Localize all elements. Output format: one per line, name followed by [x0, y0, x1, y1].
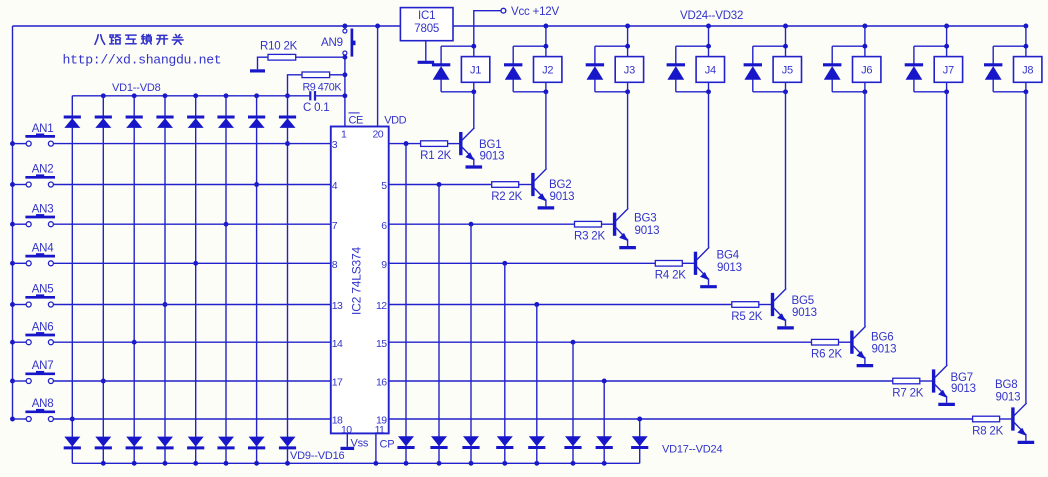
wire row 4 to IC2 pin	[53, 262, 330, 264]
svg-text:R3 2K: R3 2K	[574, 231, 605, 243]
svg-text:J8: J8	[1022, 65, 1033, 77]
wire J2 diode bracket top	[513, 45, 546, 47]
node AN7 row to column 2 junction	[101, 379, 106, 384]
node matrix column 8 bottom junction	[285, 461, 290, 466]
wire row 3 to IC2 pin	[53, 223, 330, 225]
octal latch IC2 74LS374	[331, 127, 389, 434]
diode VD6	[217, 116, 234, 119]
node matrix column 7 bottom junction	[254, 461, 259, 466]
svg-text:7805: 7805	[414, 23, 439, 35]
node AN1 row to column 8 junction	[285, 141, 290, 146]
wire J5 column lower	[785, 82, 787, 92]
transistor BG5 9013	[771, 293, 774, 316]
node J5 bus junction	[783, 24, 788, 29]
node J5 bracket top	[783, 44, 788, 49]
node J6 bracket top	[862, 44, 867, 49]
wire R9 left leg	[288, 75, 303, 96]
svg-text:AN4: AN4	[32, 243, 55, 255]
ground BG6 emitter	[857, 364, 874, 367]
wire VD1-VD8 cathode bus	[72, 95, 287, 97]
wire IC2 output row 3	[389, 223, 575, 225]
title text 八路互锁开关	[95, 34, 183, 44]
diode VD23	[596, 436, 612, 446]
wire drop column 1	[405, 144, 407, 464]
pushbutton AN1	[26, 141, 31, 146]
diode VD32	[984, 63, 1002, 66]
wire Vss stub	[346, 433, 348, 446]
transistor BG2 9013	[531, 173, 534, 196]
wire J4 diode bracket top	[676, 45, 709, 47]
resistor R2 2K	[492, 182, 519, 188]
svg-text:IC2 74LS374: IC2 74LS374	[349, 247, 363, 315]
wire J7 column lower	[946, 82, 948, 92]
svg-text:R1 2K: R1 2K	[420, 150, 451, 162]
pushbutton AN5	[26, 302, 31, 307]
svg-text:BG8: BG8	[995, 379, 1017, 391]
svg-text:http://xd.shangdu.net: http://xd.shangdu.net	[63, 53, 222, 68]
svg-text:13: 13	[332, 300, 343, 312]
wire R4 to base	[682, 262, 695, 264]
node drop column 8 junction	[637, 417, 642, 422]
wire J4 column upper	[708, 26, 710, 57]
svg-text:17: 17	[332, 377, 343, 389]
svg-text:J3: J3	[624, 65, 635, 77]
wire VD27 cathode lead	[594, 80, 596, 92]
pushbutton AN7	[26, 379, 31, 384]
wire collector column J8	[1025, 92, 1027, 403]
wire J2 column lower	[545, 82, 547, 92]
svg-text:9013: 9013	[996, 392, 1021, 404]
terminal Vcc +12V	[501, 8, 506, 13]
node VD22 bottom junction	[571, 461, 576, 466]
node J3 bracket top	[625, 44, 630, 49]
node J6 bracket bottom	[862, 89, 867, 94]
pushbutton AN8	[26, 417, 31, 422]
svg-text:R7 2K: R7 2K	[892, 387, 923, 399]
diode VD1	[64, 116, 81, 119]
wire row 8 to IC2 pin	[53, 418, 330, 420]
diode VD13	[188, 437, 204, 447]
resistor R9 470K	[302, 72, 330, 78]
resistor R3 2K	[575, 221, 602, 227]
wire bottom ground bus	[72, 462, 639, 464]
transistor BG3 9013	[613, 213, 616, 236]
relay J6	[853, 57, 881, 83]
wire R1 to base	[448, 143, 461, 145]
node J7 bus junction	[944, 24, 949, 29]
svg-text:BG6: BG6	[871, 331, 893, 343]
wire IC2 output row 6	[389, 341, 812, 343]
transistor BG6 9013	[850, 331, 853, 354]
ground BG8 emitter	[1018, 441, 1035, 444]
wire VDD pin20 line	[377, 26, 379, 127]
svg-text:CP: CP	[380, 438, 395, 450]
svg-text:Vss: Vss	[351, 437, 369, 449]
wire row 2 to IC2 pin	[53, 184, 330, 186]
node matrix column 3 bottom junction	[132, 461, 137, 466]
capacitor C 0.1	[309, 91, 311, 100]
node J3 bracket bottom	[625, 89, 630, 94]
wire J4 column lower	[708, 82, 710, 92]
ground BG4 emitter	[700, 285, 717, 288]
diode VD31	[905, 63, 923, 66]
wire J1 column lower	[473, 82, 475, 92]
diode VD17	[398, 436, 414, 446]
wire J6 column lower	[864, 82, 866, 92]
node J2 bus junction	[543, 24, 548, 29]
wire VD29 cathode lead	[752, 80, 754, 92]
diode VD24	[632, 436, 648, 446]
node VD18 bottom junction	[437, 461, 442, 466]
resistor R6 2K	[812, 339, 839, 345]
svg-text:9013: 9013	[951, 383, 976, 395]
wire drop column 2	[438, 185, 440, 464]
svg-text:AN3: AN3	[32, 203, 54, 215]
wire J6 diode bracket bottom	[832, 91, 865, 93]
wire collector column J1	[473, 92, 475, 128]
wire VD26 anode lead	[512, 46, 514, 65]
wire VD32 anode lead	[992, 46, 994, 65]
svg-text:BG4: BG4	[717, 250, 740, 262]
relay J4	[696, 57, 724, 83]
transistor BG8 9013	[1011, 407, 1014, 430]
diode VD16	[280, 437, 296, 447]
wire drop column 8	[639, 419, 641, 463]
wire collector column J7	[946, 92, 948, 365]
node drop column 6 junction	[571, 340, 576, 345]
wire C left	[288, 95, 311, 97]
resistor R4 2K	[655, 261, 682, 267]
voltage regulator IC1 7805	[400, 8, 453, 41]
relay J3	[615, 57, 643, 83]
svg-text:R8 2K: R8 2K	[972, 425, 1003, 437]
wire R7 to base	[920, 380, 934, 382]
wire VD29 anode lead	[752, 46, 754, 65]
resistor R7 2K	[893, 378, 920, 384]
wire IC2 output row 8	[389, 418, 973, 420]
node J5 bracket bottom	[783, 89, 788, 94]
wire VD30 anode lead	[831, 46, 833, 65]
wire J2 column upper	[545, 26, 547, 57]
ground Vss	[341, 447, 355, 450]
node J8 bracket bottom	[1023, 89, 1028, 94]
node J2 bracket top	[543, 44, 548, 49]
node VD20 bottom junction	[502, 461, 507, 466]
wire J2 diode bracket bottom	[513, 91, 546, 93]
wire matrix column 1	[71, 96, 73, 464]
diode VD7	[248, 116, 265, 119]
relay J5	[773, 57, 801, 83]
node left bus row 3	[10, 222, 15, 227]
wire IC2 output row 7	[389, 380, 893, 382]
diode VD15	[249, 437, 265, 447]
svg-text:1: 1	[341, 129, 347, 141]
node left bus row 1	[10, 141, 15, 146]
wire VD32 cathode lead	[992, 80, 994, 92]
transistor BG4 9013	[694, 252, 697, 275]
node drop column 1 junction	[404, 141, 409, 146]
wire matrix column 3	[133, 96, 135, 464]
svg-text:R5 2K: R5 2K	[731, 311, 762, 323]
wire J3 column lower	[627, 82, 629, 92]
svg-text:R2 2K: R2 2K	[491, 191, 522, 203]
svg-text:8: 8	[332, 259, 338, 271]
wire VD25 cathode lead	[440, 80, 442, 92]
wire VD31 anode lead	[913, 46, 915, 65]
wire VD28 anode lead	[675, 46, 677, 65]
wire VD26 cathode lead	[512, 80, 514, 92]
wire R2 to base	[519, 184, 533, 186]
svg-text:AN8: AN8	[32, 398, 54, 410]
node J1 bracket bottom	[471, 89, 476, 94]
wire VD28 cathode lead	[675, 80, 677, 92]
node VD2 bus junction	[101, 93, 106, 98]
node VD6 bus junction	[224, 93, 229, 98]
wire J6 column upper	[864, 26, 866, 57]
node left bus row 2	[10, 182, 15, 187]
wire J3 diode bracket bottom	[595, 91, 628, 93]
svg-text:9013: 9013	[872, 344, 897, 356]
node J4 bracket top	[706, 44, 711, 49]
wire J5 diode bracket top	[753, 45, 786, 47]
diode VD21	[529, 436, 545, 446]
node VD19 bottom junction	[469, 461, 474, 466]
node AN5 row to column 4 junction	[163, 302, 168, 307]
node drop column 7 junction	[602, 379, 607, 384]
ground BG5 emitter	[777, 326, 794, 329]
svg-text:14: 14	[332, 338, 343, 350]
wire AN1 left lead	[13, 143, 27, 145]
diode VD18	[431, 436, 447, 446]
node AN8 row to column 1 junction	[70, 417, 75, 422]
relay J2	[534, 57, 562, 83]
svg-text:VDD: VDD	[384, 114, 406, 126]
wire CP stub	[375, 433, 377, 463]
wire AN9 bottom to CE column	[344, 55, 346, 127]
wire collector column J5	[785, 92, 787, 289]
diode VD26	[504, 63, 522, 66]
node J8 bracket top	[1023, 44, 1028, 49]
diode VD19	[463, 436, 479, 446]
wire AN5 left lead	[13, 304, 27, 306]
wire drop column 3	[470, 224, 472, 463]
wire J7 diode bracket bottom	[914, 91, 947, 93]
diode VD20	[497, 436, 513, 446]
svg-text:12: 12	[376, 300, 387, 312]
svg-text:BG5: BG5	[792, 295, 814, 307]
node J1 bracket top	[471, 44, 476, 49]
wire +5V top bus (left segment)	[13, 25, 401, 27]
wire row 6 to IC2 pin	[53, 341, 330, 343]
diode VD2	[95, 116, 112, 119]
svg-text:9013: 9013	[635, 225, 660, 237]
node left bus row 4	[10, 261, 15, 266]
wire IC2 output row 1	[389, 143, 421, 145]
wire R10 right	[296, 56, 345, 58]
ground BG1 emitter	[466, 165, 483, 168]
node AN2 row to column 7 junction	[254, 182, 259, 187]
diode VD10	[95, 437, 111, 447]
relay J1	[461, 57, 489, 83]
node AN6 row to column 3 junction	[132, 340, 137, 345]
wire +12V top bus (right segment)	[453, 25, 1026, 27]
diode VD25	[432, 63, 450, 66]
node VD4 bus junction	[163, 93, 168, 98]
svg-text:16: 16	[376, 377, 387, 389]
wire J3 diode bracket top	[595, 45, 628, 47]
svg-text:AN1: AN1	[32, 123, 54, 135]
svg-text:9013: 9013	[717, 262, 742, 274]
wire AN8 left lead	[13, 418, 27, 420]
svg-text:AN5: AN5	[32, 284, 54, 296]
svg-text:BG2: BG2	[549, 179, 571, 191]
diode VD29	[744, 63, 762, 66]
diode VD14	[218, 437, 234, 447]
ground BG2 emitter	[538, 206, 555, 209]
ground IC1	[418, 61, 435, 64]
wire matrix column 6	[225, 96, 227, 464]
wire VD30 cathode lead	[831, 80, 833, 92]
svg-text:VD9--VD16: VD9--VD16	[290, 450, 345, 462]
node R10 junction	[342, 55, 347, 60]
wire VD27 anode lead	[594, 46, 596, 65]
node left bus row 6	[10, 340, 15, 345]
node J7 bracket bottom	[944, 89, 949, 94]
svg-text:9: 9	[381, 259, 387, 271]
svg-text:9013: 9013	[550, 191, 575, 203]
diode VD27	[586, 63, 604, 66]
wire J4 diode bracket bottom	[676, 91, 709, 93]
relay J7	[934, 57, 962, 83]
wire collector column J3	[627, 92, 629, 208]
transistor BG7 9013	[932, 369, 935, 392]
node CE column / C junction	[342, 93, 347, 98]
node VD21 bottom junction	[534, 461, 539, 466]
node J4 bracket bottom	[706, 89, 711, 94]
svg-text:AN6: AN6	[32, 321, 54, 333]
svg-text:4: 4	[332, 180, 338, 192]
wire AN6 left lead	[13, 341, 27, 343]
svg-text:R10 2K: R10 2K	[260, 41, 298, 53]
wire J1 diode bracket top	[441, 45, 474, 47]
node VD17 bottom junction	[404, 461, 409, 466]
pushbutton AN4	[26, 261, 31, 266]
diode VD30	[823, 63, 841, 66]
pushbutton AN6	[26, 340, 31, 345]
wire R10 left to ground	[258, 57, 269, 69]
pushbutton AN2	[26, 182, 31, 187]
svg-text:J6: J6	[861, 65, 872, 77]
wire matrix column 7	[256, 96, 258, 464]
wire J6 diode bracket top	[832, 45, 865, 47]
wire collector column J2	[545, 92, 547, 169]
diode VD9	[64, 437, 80, 447]
svg-text:J7: J7	[943, 65, 954, 77]
wire AN4 left lead	[13, 262, 27, 264]
wire row 5 to IC2 pin	[53, 304, 330, 306]
svg-text:AN2: AN2	[32, 164, 54, 176]
wire collector column J6	[864, 92, 866, 326]
wire collector column J4	[708, 92, 710, 248]
svg-text:J4: J4	[705, 65, 716, 77]
ground BG3 emitter	[619, 246, 636, 249]
svg-text:VD24--VD32: VD24--VD32	[680, 10, 743, 22]
wire J8 column upper	[1025, 26, 1027, 57]
svg-text:VD17--VD24: VD17--VD24	[662, 444, 722, 456]
wire J8 diode bracket top	[993, 45, 1026, 47]
wire matrix column 4	[164, 96, 166, 464]
svg-text:R4 2K: R4 2K	[655, 270, 686, 282]
wire AN9 top stub	[344, 26, 346, 29]
diode VD22	[565, 436, 581, 446]
diode VD12	[157, 437, 173, 447]
wire R8 to base	[1000, 418, 1013, 420]
wire J3 column upper	[627, 26, 629, 57]
diode VD8	[279, 116, 296, 119]
node drop column 2 junction	[437, 182, 442, 187]
svg-text:C 0.1: C 0.1	[303, 102, 330, 114]
node left bus row 5	[10, 302, 15, 307]
pushbutton AN9	[343, 29, 347, 33]
wire drop column 7	[603, 381, 605, 463]
resistor R1 2K	[421, 141, 448, 147]
diode VD3	[126, 116, 143, 119]
wire IC2 output row 5	[389, 304, 732, 306]
wire VD25 anode lead	[440, 46, 442, 65]
wire drop column 4	[504, 263, 506, 463]
node AN9 tap on 5V bus	[342, 24, 347, 29]
node AN4 row to column 5 junction	[193, 261, 198, 266]
wire R9 right	[330, 74, 345, 76]
wire J7 diode bracket top	[914, 45, 947, 47]
diode VD4	[156, 116, 173, 119]
node drop column 5 junction	[534, 302, 539, 307]
wire J1 column upper	[473, 26, 475, 57]
svg-text:R6 2K: R6 2K	[811, 349, 842, 361]
wire drop column 6	[572, 342, 574, 463]
wire row 1 to IC2 pin	[53, 143, 330, 145]
resistor R5 2K	[732, 302, 759, 308]
diode VD28	[667, 63, 685, 66]
node VDD tap on 5V bus	[375, 24, 380, 29]
wire matrix column 2	[102, 96, 104, 464]
wire J1 diode bracket bottom	[441, 91, 474, 93]
wire matrix column 5	[195, 96, 197, 464]
wire Vcc branch	[474, 11, 501, 26]
svg-text:9013: 9013	[792, 307, 817, 319]
node AN3 row to column 6 junction	[224, 222, 229, 227]
wire J5 column upper	[785, 26, 787, 57]
svg-text:3: 3	[332, 139, 338, 151]
wire IC1 ground stub	[425, 41, 427, 61]
relay J8	[1014, 57, 1042, 83]
transistor BG1 9013	[459, 132, 462, 155]
svg-text:6: 6	[381, 220, 387, 232]
svg-text:15: 15	[376, 338, 387, 350]
node matrix column 6 bottom junction	[224, 461, 229, 466]
wire J7 column upper	[946, 26, 948, 57]
svg-text:Vcc +12V: Vcc +12V	[511, 6, 559, 18]
svg-text:J1: J1	[470, 65, 481, 77]
wire matrix column 8	[287, 96, 289, 464]
svg-text:R9 470K: R9 470K	[303, 82, 343, 94]
node VD3 bus junction	[132, 93, 137, 98]
wire AN2 left lead	[13, 184, 27, 186]
svg-text:J5: J5	[782, 65, 793, 77]
svg-text:9013: 9013	[480, 151, 505, 163]
node drop column 3 junction	[469, 222, 474, 227]
ground R10	[250, 69, 265, 72]
